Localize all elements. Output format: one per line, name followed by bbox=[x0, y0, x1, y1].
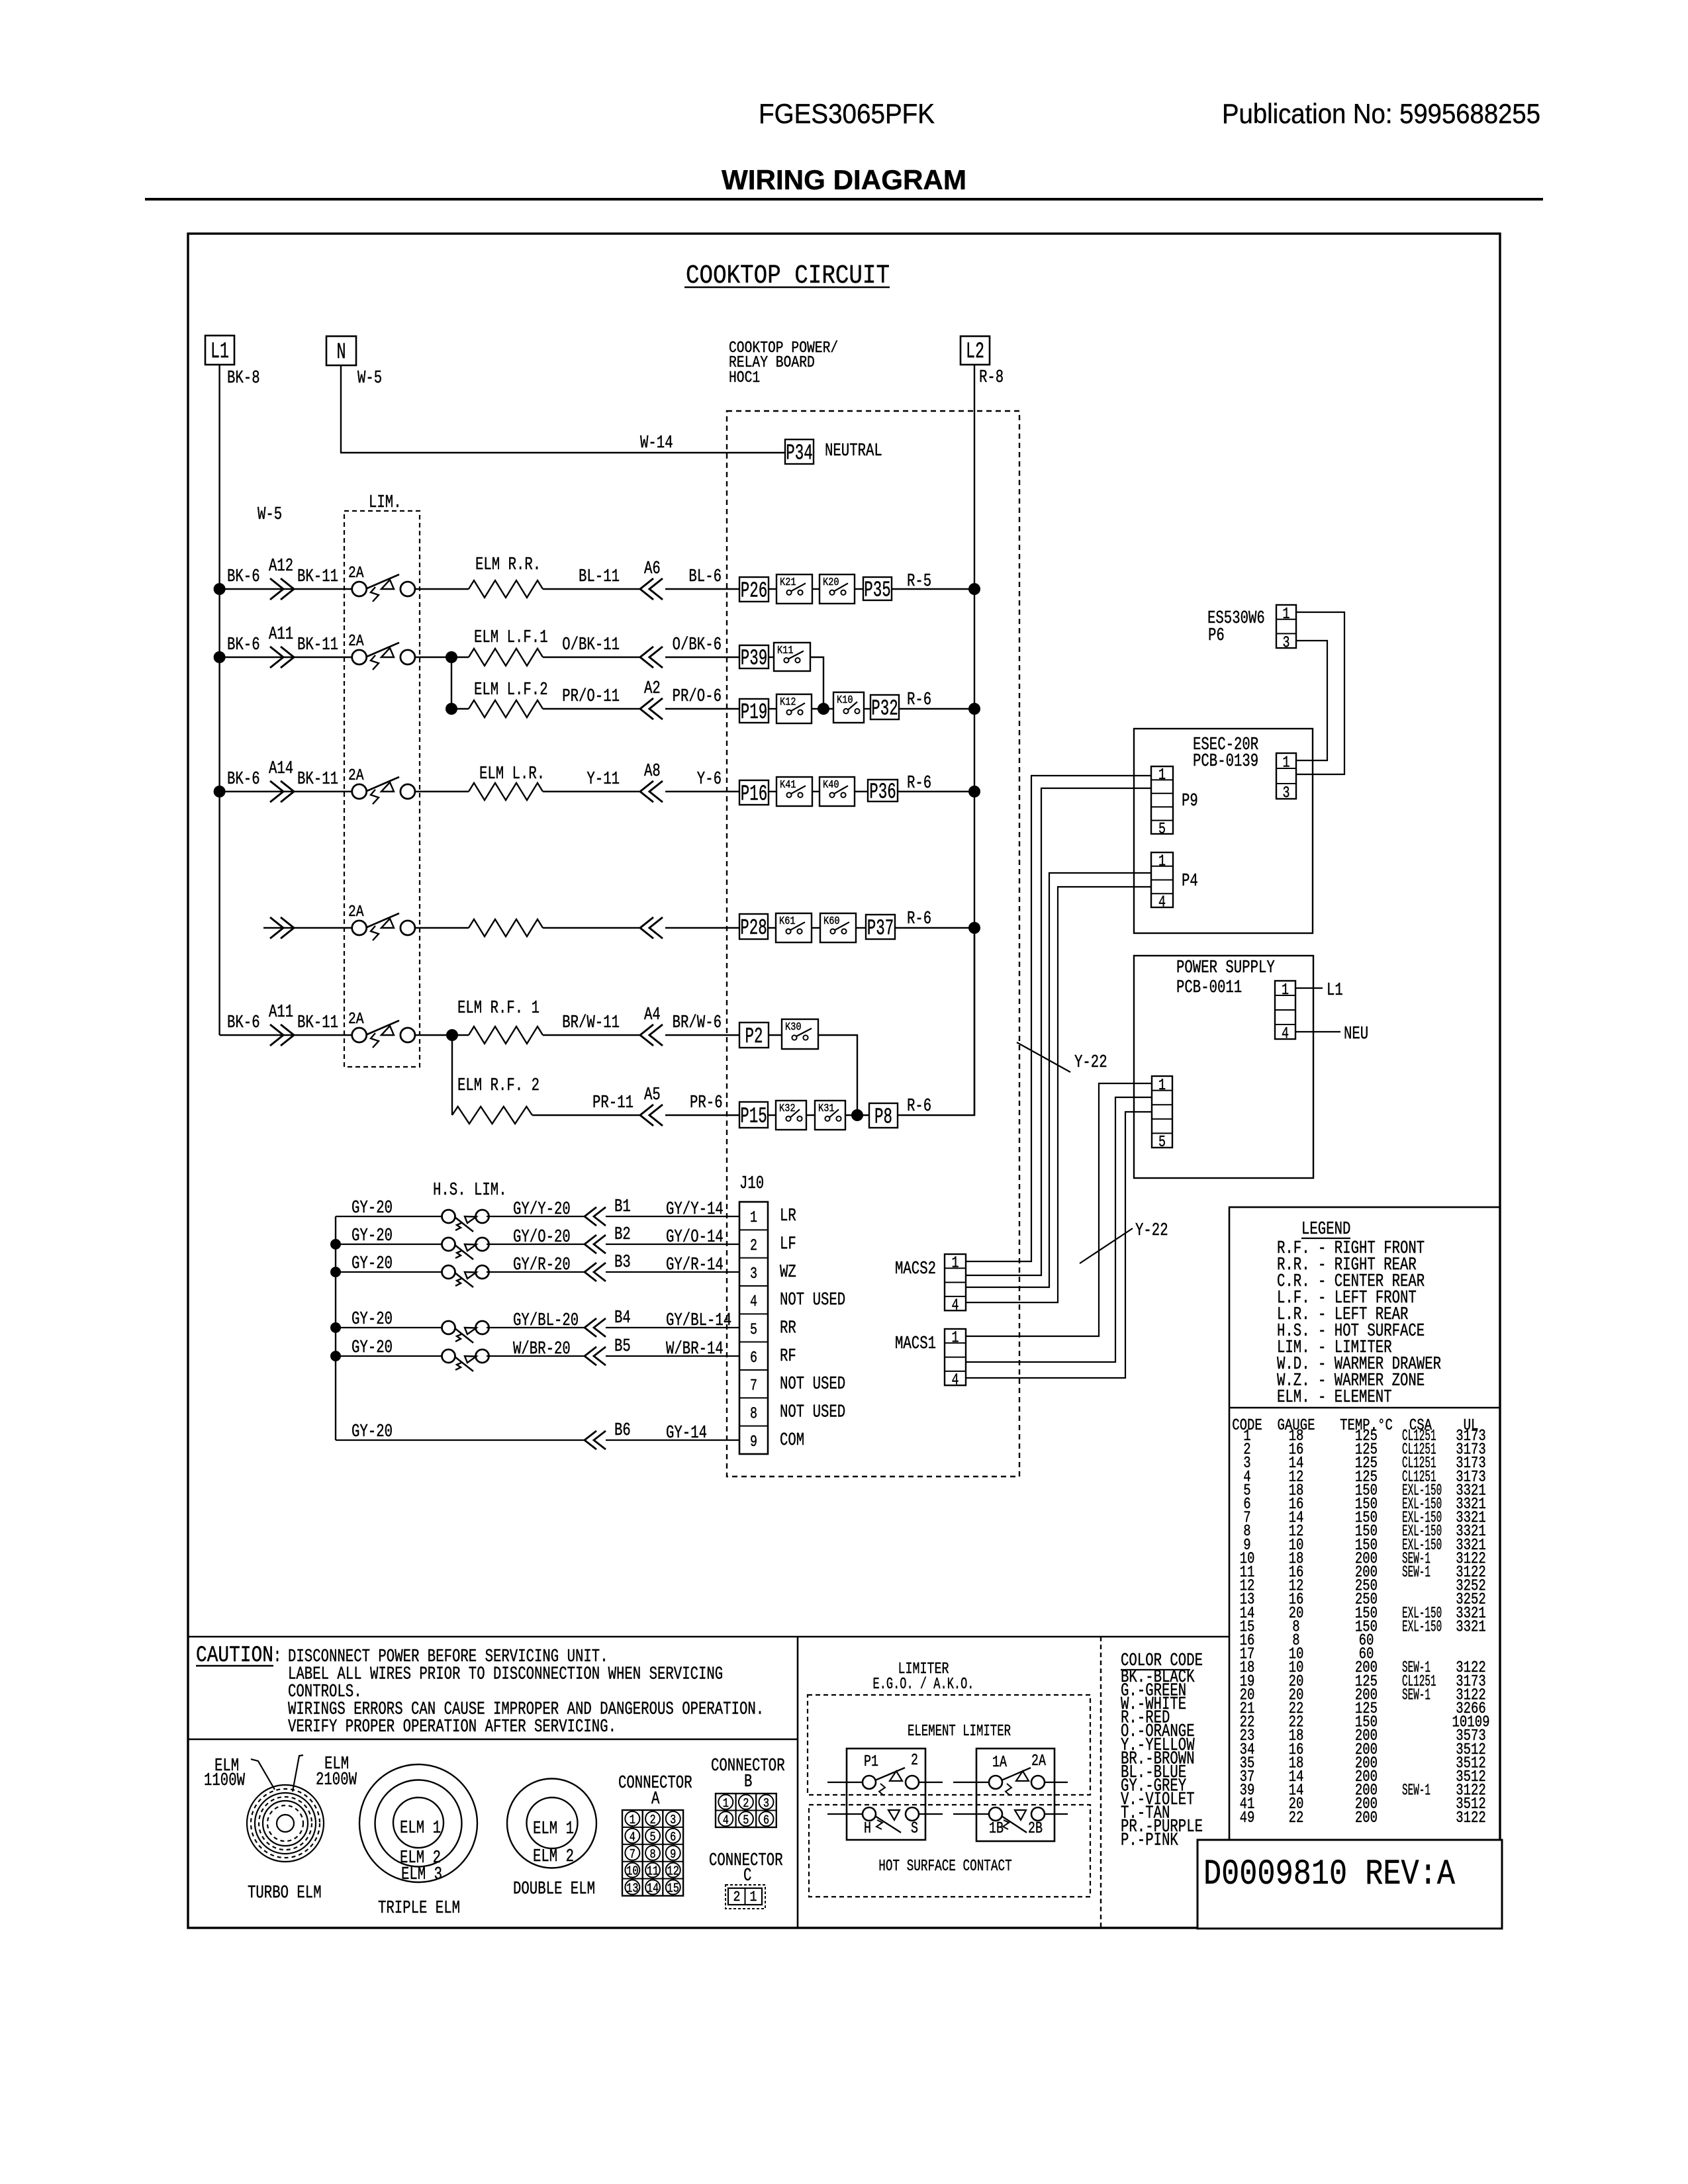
svg-text:9: 9 bbox=[750, 1433, 757, 1451]
svg-text:ELM 2: ELM 2 bbox=[533, 1847, 574, 1867]
svg-text:K12: K12 bbox=[780, 696, 796, 709]
svg-text:7: 7 bbox=[750, 1377, 757, 1395]
svg-text:NOT USED: NOT USED bbox=[780, 1375, 845, 1394]
wire resistor to splice bbox=[543, 927, 639, 929]
connector P2 bbox=[739, 1023, 769, 1048]
svg-text:1: 1 bbox=[952, 1255, 959, 1273]
terminal L2 bbox=[961, 336, 990, 365]
svg-text:BK-6: BK-6 bbox=[227, 1013, 260, 1033]
leader line ELM 2100W bbox=[293, 1755, 303, 1792]
svg-text:O/BK-11: O/BK-11 bbox=[562, 635, 620, 655]
connector C bbox=[726, 1885, 765, 1909]
svg-text:VERIFY PROPER OPERATION AFTER: VERIFY PROPER OPERATION AFTER SERVICING. bbox=[288, 1717, 616, 1737]
svg-text:P39: P39 bbox=[741, 647, 768, 671]
svg-text:4: 4 bbox=[952, 1372, 959, 1390]
splice arrow bbox=[270, 917, 283, 938]
connector P39 bbox=[739, 645, 769, 668]
svg-text:K20: K20 bbox=[823, 576, 839, 589]
svg-text:P8: P8 bbox=[874, 1105, 892, 1130]
svg-text:GY-20: GY-20 bbox=[352, 1310, 393, 1330]
svg-text:BK-11: BK-11 bbox=[297, 635, 338, 655]
wire P16 to K41 bbox=[769, 791, 776, 792]
wire GY-20 bus bbox=[335, 1216, 336, 1440]
wire from L1 bus to limiter bbox=[263, 927, 352, 929]
wire N to P34 neutral bbox=[341, 365, 785, 453]
limiter switch box P1/2/H/S bbox=[847, 1749, 925, 1840]
divider color code section dashed bbox=[1100, 1637, 1102, 1928]
hot surface contact dashed box bbox=[809, 1805, 1090, 1897]
svg-text:R-6: R-6 bbox=[907, 774, 931, 794]
limiter switch 2A bbox=[352, 1028, 367, 1042]
splice arrow left bbox=[594, 1235, 606, 1253]
svg-text:P15: P15 bbox=[740, 1105, 767, 1129]
svg-text:A11: A11 bbox=[269, 1003, 293, 1023]
svg-text:Y-6: Y-6 bbox=[697, 770, 722, 790]
wire P6 pin1 to ESEC pin2 bbox=[1296, 612, 1344, 774]
svg-text:B6: B6 bbox=[614, 1421, 631, 1441]
limiter switch 2A bbox=[352, 582, 367, 596]
svg-text:LF: LF bbox=[780, 1235, 796, 1255]
svg-text:BK-8: BK-8 bbox=[227, 369, 260, 388]
wire P26 to K21 bbox=[769, 588, 776, 590]
svg-text:BR/W-11: BR/W-11 bbox=[562, 1013, 620, 1033]
limiter switch box 1A/2A/1B/2B bbox=[976, 1749, 1055, 1841]
wire splice to relay board bbox=[665, 708, 739, 709]
wire RF junction down to row RF2 bbox=[451, 1035, 453, 1115]
svg-text:4: 4 bbox=[750, 1293, 757, 1311]
svg-text:BK-6: BK-6 bbox=[227, 567, 260, 587]
connector P28 bbox=[739, 914, 768, 939]
connector P35 bbox=[863, 577, 892, 600]
svg-text:B1: B1 bbox=[614, 1197, 631, 1217]
svg-text:4: 4 bbox=[723, 1813, 729, 1827]
svg-text:BK-6: BK-6 bbox=[227, 770, 260, 790]
relay K40 bbox=[820, 777, 855, 806]
wire K31 to P8 bbox=[845, 1115, 869, 1116]
svg-text:200: 200 bbox=[1355, 1809, 1378, 1827]
caution box bottom line bbox=[188, 1739, 798, 1741]
wire switch to resistor bbox=[414, 791, 469, 792]
connector P16 bbox=[739, 780, 769, 805]
svg-text:R-6: R-6 bbox=[907, 909, 931, 929]
svg-text:N: N bbox=[337, 340, 346, 365]
svg-text:3122: 3122 bbox=[1456, 1809, 1486, 1827]
svg-text:H.S. LIM.: H.S. LIM. bbox=[433, 1181, 507, 1201]
svg-text:TRIPLE ELM: TRIPLE ELM bbox=[378, 1899, 460, 1919]
svg-text:K60: K60 bbox=[823, 915, 840, 928]
junction node on GY-20 bus bbox=[330, 1351, 341, 1361]
svg-text:W-5: W-5 bbox=[258, 505, 282, 525]
svg-text:1: 1 bbox=[1158, 852, 1166, 870]
svg-text:9: 9 bbox=[670, 1847, 676, 1862]
svg-text:POWER SUPPLY: POWER SUPPLY bbox=[1176, 958, 1275, 978]
wire hot surface 1B left stub bbox=[953, 1813, 989, 1815]
splice arrow bbox=[270, 1024, 283, 1046]
svg-text:P9: P9 bbox=[1182, 792, 1198, 811]
svg-text:1: 1 bbox=[1158, 766, 1166, 784]
splice arrow left bbox=[649, 917, 663, 938]
svg-text:PR/O-11: PR/O-11 bbox=[562, 687, 620, 707]
svg-text:P4: P4 bbox=[1182, 872, 1198, 891]
wire splice to relay board bbox=[665, 791, 739, 792]
svg-text:2: 2 bbox=[743, 1796, 749, 1811]
wire bus to H.S. switch bbox=[336, 1216, 442, 1217]
svg-text:5: 5 bbox=[1158, 1134, 1166, 1152]
element resistor ELM R.F. 1 bbox=[469, 1026, 543, 1044]
svg-text:P1: P1 bbox=[864, 1753, 878, 1771]
connector P32 bbox=[870, 695, 899, 719]
svg-text:R-8: R-8 bbox=[979, 368, 1004, 388]
svg-text:FGES3065PFK: FGES3065PFK bbox=[759, 98, 935, 129]
svg-text:K41: K41 bbox=[780, 779, 796, 792]
svg-text:O/BK-6: O/BK-6 bbox=[673, 635, 722, 655]
limiter switch 2A bbox=[352, 784, 367, 799]
wire splice to relay board bbox=[665, 588, 739, 590]
svg-text:BK-11: BK-11 bbox=[297, 567, 338, 587]
wire hot surface row right stub bbox=[919, 1813, 943, 1815]
svg-text::: : bbox=[273, 1645, 281, 1668]
svg-text:ELM R.F. 2: ELM R.F. 2 bbox=[457, 1076, 539, 1096]
wire splice to J10 bbox=[606, 1439, 739, 1441]
svg-text:WIRINGS ERRORS CAN CAUSE IMPRO: WIRINGS ERRORS CAN CAUSE IMPROPER AND DA… bbox=[288, 1700, 764, 1720]
connector P19 bbox=[739, 699, 769, 723]
svg-text:EXL-150: EXL-150 bbox=[1402, 1618, 1442, 1636]
relay K41 bbox=[776, 777, 812, 806]
svg-text:RR: RR bbox=[780, 1319, 796, 1339]
svg-text:A8: A8 bbox=[644, 762, 661, 782]
svg-text:BK-6: BK-6 bbox=[227, 635, 260, 655]
wire L1 bus bbox=[218, 365, 220, 1035]
svg-text:3: 3 bbox=[1283, 785, 1290, 803]
svg-text:SEW-1: SEW-1 bbox=[1402, 1564, 1430, 1582]
svg-text:R-5: R-5 bbox=[907, 572, 931, 592]
svg-text:NOT USED: NOT USED bbox=[780, 1403, 845, 1423]
svg-text:1: 1 bbox=[750, 1209, 757, 1227]
wire resistor to splice bbox=[543, 708, 639, 709]
bottom section divider horizontal bbox=[188, 1636, 1229, 1638]
wire switch to resistor bbox=[414, 927, 469, 929]
wire switch to junction bbox=[414, 1034, 453, 1036]
svg-text:LIM.: LIM. bbox=[369, 493, 402, 513]
svg-text:5: 5 bbox=[750, 1322, 757, 1340]
element limiter dashed box bbox=[808, 1695, 1090, 1795]
svg-text:K32: K32 bbox=[779, 1103, 796, 1115]
svg-text:Y-22: Y-22 bbox=[1074, 1053, 1107, 1073]
svg-text:B3: B3 bbox=[614, 1253, 631, 1273]
element resistor ELM L.F.2 bbox=[469, 700, 543, 717]
svg-text:BL-6: BL-6 bbox=[688, 567, 722, 587]
svg-text:S: S bbox=[911, 1820, 918, 1838]
svg-text:BK-11: BK-11 bbox=[297, 1013, 338, 1033]
svg-text:1: 1 bbox=[750, 1889, 757, 1905]
svg-text:GY-20: GY-20 bbox=[352, 1422, 393, 1442]
leader line Y-22 lower bbox=[1080, 1228, 1133, 1263]
terminal N bbox=[326, 336, 356, 365]
wire P28 to K61 bbox=[768, 927, 776, 929]
wire splice to J10 bbox=[606, 1216, 739, 1217]
wire bus to H.S. switch bbox=[336, 1271, 442, 1273]
wire from L1 bus to limiter bbox=[220, 791, 352, 792]
connector power supply L1/NEU bbox=[1275, 981, 1295, 1039]
wire K30 down to P8 node bbox=[818, 1035, 857, 1115]
wire bus to H.S. switch bbox=[336, 1355, 442, 1357]
svg-text:WIRING DIAGRAM: WIRING DIAGRAM bbox=[722, 164, 966, 195]
svg-text:P6: P6 bbox=[1208, 626, 1225, 646]
svg-text:2A: 2A bbox=[348, 767, 364, 785]
svg-text:LEGEND: LEGEND bbox=[1301, 1220, 1350, 1240]
svg-text:P36: P36 bbox=[869, 780, 896, 805]
svg-text:GY-20: GY-20 bbox=[352, 1226, 393, 1246]
wire P39 to K11 bbox=[769, 657, 774, 658]
wire splice to relay board bbox=[665, 927, 739, 929]
wire to L1 terminal bbox=[1295, 987, 1323, 989]
svg-text:P28: P28 bbox=[740, 916, 767, 940]
connector P34 bbox=[785, 439, 814, 464]
limiter switch 2A bbox=[352, 921, 367, 935]
svg-text:GY-20: GY-20 bbox=[352, 1338, 393, 1358]
svg-text:3: 3 bbox=[750, 1265, 757, 1283]
svg-text:CONTROLS.: CONTROLS. bbox=[288, 1682, 362, 1702]
wire switch to splice bbox=[487, 1216, 585, 1217]
svg-text:K30: K30 bbox=[785, 1021, 802, 1034]
svg-text:C: C bbox=[743, 1866, 751, 1886]
wire switch to junction bbox=[414, 657, 452, 658]
svg-text:ELM L.F.2: ELM L.F.2 bbox=[474, 680, 548, 700]
wire switch to resistor bbox=[452, 1034, 469, 1036]
limiter switch 2A bbox=[352, 650, 367, 664]
svg-text:10: 10 bbox=[626, 1864, 638, 1879]
wire K11 to K10 via down bbox=[810, 657, 823, 709]
splice arrow left bbox=[649, 698, 663, 719]
wire resistor to splice bbox=[543, 791, 639, 792]
wire junction to row LF2 bbox=[451, 657, 452, 709]
svg-text:NEUTRAL: NEUTRAL bbox=[825, 441, 882, 461]
splice arrow bbox=[270, 647, 283, 668]
junction node on L2 bus row LR bbox=[968, 786, 980, 797]
wire element limiter 1A left stub bbox=[953, 1782, 989, 1783]
svg-text:R-6: R-6 bbox=[907, 1097, 931, 1116]
connector ESEC 1-3 bbox=[1276, 753, 1296, 799]
svg-text:1A: 1A bbox=[992, 1754, 1007, 1772]
legend box outline bbox=[1229, 1207, 1500, 1846]
junction node on GY-20 bus bbox=[330, 1322, 341, 1333]
svg-text:A6: A6 bbox=[644, 559, 661, 579]
svg-text:7: 7 bbox=[630, 1847, 635, 1862]
wire splice to J10 bbox=[606, 1271, 739, 1273]
svg-text:MACS2: MACS2 bbox=[895, 1259, 936, 1279]
svg-text:11: 11 bbox=[647, 1864, 659, 1879]
svg-text:J10: J10 bbox=[739, 1174, 764, 1194]
wire hot surface row left stub bbox=[827, 1813, 863, 1815]
svg-text:HOC1: HOC1 bbox=[729, 369, 760, 387]
svg-text:H: H bbox=[864, 1820, 871, 1838]
svg-text:ELM L.R.: ELM L.R. bbox=[479, 764, 545, 784]
svg-text:P32: P32 bbox=[871, 697, 898, 721]
drawing number box bbox=[1197, 1840, 1502, 1929]
svg-text:GY-20: GY-20 bbox=[352, 1254, 393, 1274]
wire to NEU terminal bbox=[1295, 1031, 1340, 1032]
relay K31 bbox=[815, 1101, 845, 1130]
wire K10 to P32 bbox=[864, 708, 870, 709]
svg-text:P19: P19 bbox=[741, 700, 768, 725]
svg-text:W-14: W-14 bbox=[640, 433, 673, 453]
svg-text:1: 1 bbox=[952, 1330, 959, 1347]
cooktop power relay board HOC1 dashed outline bbox=[727, 411, 1019, 1477]
svg-text:P2: P2 bbox=[745, 1024, 763, 1049]
svg-text:B5: B5 bbox=[614, 1337, 631, 1357]
svg-text:BK-11: BK-11 bbox=[297, 770, 338, 790]
wire splice to relay board bbox=[665, 1034, 739, 1036]
svg-text:2B: 2B bbox=[1028, 1820, 1043, 1838]
terminal L1 bbox=[205, 336, 234, 365]
svg-text:1: 1 bbox=[1283, 606, 1290, 623]
svg-text:ELM R.F. 1: ELM R.F. 1 bbox=[457, 999, 539, 1019]
wire switch to resistor bbox=[414, 588, 469, 590]
board POWER SUPPLY PCB-0011 outline bbox=[1134, 956, 1313, 1178]
outer border frame bbox=[188, 234, 1500, 1928]
splice arrow left bbox=[649, 1024, 663, 1046]
svg-text:PR-11: PR-11 bbox=[592, 1093, 633, 1113]
wire P36 to L2 bus bbox=[898, 791, 974, 792]
svg-text:14: 14 bbox=[647, 1882, 659, 1896]
svg-text:A14: A14 bbox=[269, 759, 293, 779]
relay K21 bbox=[776, 574, 812, 604]
svg-text:B: B bbox=[744, 1772, 752, 1792]
junction node K11/K12 bbox=[818, 703, 829, 715]
hot surface limiter switch bbox=[442, 1238, 455, 1251]
connector J10 bbox=[739, 1202, 768, 1454]
wire P19 to K12 bbox=[769, 708, 776, 709]
wire K60 to P37 bbox=[856, 927, 866, 929]
relay K20 bbox=[820, 574, 855, 604]
hot surface switch 1B-2B bbox=[989, 1807, 1002, 1821]
svg-text:22: 22 bbox=[1289, 1809, 1304, 1827]
svg-text:K31: K31 bbox=[818, 1103, 835, 1115]
wire element limiter row right stub bbox=[919, 1782, 943, 1783]
junction node on GY-20 bus bbox=[330, 1239, 341, 1250]
relay K61 bbox=[776, 913, 812, 942]
board ESEC-20R PCB-0139 outline bbox=[1134, 729, 1313, 933]
splice arrow left bbox=[649, 578, 663, 600]
svg-text:2: 2 bbox=[649, 1813, 655, 1827]
svg-text:ELM. - ELEMENT: ELM. - ELEMENT bbox=[1277, 1388, 1392, 1408]
svg-text:PR-6: PR-6 bbox=[690, 1093, 723, 1113]
wire bus to splice row COM bbox=[336, 1439, 585, 1441]
hot surface limiter switch bbox=[442, 1321, 455, 1334]
wire PS pin3 to MACS1 pin4 bbox=[966, 1112, 1152, 1378]
connector A pin grid bbox=[622, 1810, 683, 1896]
relay K60 bbox=[820, 913, 856, 942]
svg-text:2100W: 2100W bbox=[316, 1770, 357, 1790]
wire element limiter row left stub bbox=[827, 1782, 863, 1783]
wire PS pin1 to MACS1 pin1 bbox=[966, 1083, 1152, 1336]
turbo element coil rings bbox=[247, 1785, 324, 1862]
svg-text:P34: P34 bbox=[786, 441, 813, 466]
wire K32 to K31 bbox=[806, 1115, 815, 1116]
wire bus to H.S. switch bbox=[336, 1244, 442, 1245]
wire K12 to junction bbox=[812, 708, 833, 709]
svg-text:K40: K40 bbox=[823, 779, 839, 792]
svg-text:1100W: 1100W bbox=[204, 1771, 246, 1791]
svg-text:Y-11: Y-11 bbox=[586, 770, 620, 790]
svg-text:TURBO ELM: TURBO ELM bbox=[248, 1884, 322, 1903]
svg-text:P16: P16 bbox=[741, 782, 768, 807]
element resistor ELM R.R. bbox=[469, 580, 543, 598]
svg-text:4: 4 bbox=[952, 1297, 959, 1315]
wire P2 to K30 bbox=[769, 1034, 782, 1036]
connector P6 bbox=[1276, 605, 1296, 648]
svg-text:DISCONNECT POWER BEFORE SERVIC: DISCONNECT POWER BEFORE SERVICING UNIT. bbox=[288, 1647, 608, 1667]
leader line Y-22 upper bbox=[1017, 1042, 1070, 1072]
svg-text:ELM 3: ELM 3 bbox=[401, 1865, 442, 1885]
wire P8 to L2 bus bbox=[898, 928, 974, 1115]
svg-text:K10: K10 bbox=[837, 694, 853, 707]
svg-text:1: 1 bbox=[630, 1813, 635, 1827]
svg-text:3: 3 bbox=[1283, 634, 1290, 652]
svg-text:PR/O-6: PR/O-6 bbox=[673, 687, 722, 707]
junction node on L2 bus row 4 bbox=[968, 922, 980, 934]
svg-text:BR/W-6: BR/W-6 bbox=[673, 1013, 722, 1033]
wire switch to resistor bbox=[451, 657, 469, 658]
junction node on L1 bus row RR bbox=[214, 583, 226, 595]
svg-text:3321: 3321 bbox=[1456, 1618, 1486, 1636]
wire switch to splice bbox=[487, 1355, 585, 1357]
svg-text:W-5: W-5 bbox=[357, 369, 382, 388]
svg-text:4: 4 bbox=[630, 1830, 635, 1844]
svg-text:P.-PINK: P.-PINK bbox=[1121, 1831, 1178, 1851]
svg-text:SEW-1: SEW-1 bbox=[1402, 1686, 1430, 1704]
svg-text:LABEL ALL WIRES PRIOR TO DISCO: LABEL ALL WIRES PRIOR TO DISCONNECTION W… bbox=[288, 1665, 723, 1685]
svg-text:NEU: NEU bbox=[1344, 1024, 1368, 1044]
junction node K30/P8 bbox=[851, 1109, 863, 1121]
splice arrow left bbox=[649, 781, 663, 802]
svg-text:E.G.O. / A.K.O.: E.G.O. / A.K.O. bbox=[873, 1676, 974, 1694]
svg-text:2: 2 bbox=[911, 1752, 918, 1770]
svg-text:2A: 2A bbox=[348, 1011, 364, 1028]
wire switch to resistor bbox=[451, 708, 469, 709]
svg-text:15: 15 bbox=[667, 1882, 679, 1896]
svg-text:6: 6 bbox=[750, 1349, 757, 1367]
wire resistor to splice bbox=[543, 1034, 639, 1036]
connector P8 bbox=[869, 1103, 898, 1128]
splice arrow left bbox=[594, 1207, 606, 1226]
splice arrow bbox=[270, 578, 283, 600]
svg-text:2A: 2A bbox=[1031, 1752, 1046, 1770]
relay K30 bbox=[782, 1019, 818, 1049]
connector B pin grid bbox=[716, 1794, 776, 1827]
svg-text:ELM R.R.: ELM R.R. bbox=[475, 555, 541, 575]
svg-text:P35: P35 bbox=[864, 578, 891, 603]
wire splice to J10 bbox=[606, 1355, 739, 1357]
wire element limiter 1A right stub bbox=[1045, 1782, 1068, 1783]
wire K41 to K40 bbox=[812, 791, 820, 792]
hot surface limiter switch bbox=[442, 1210, 455, 1223]
svg-text:LR: LR bbox=[780, 1206, 796, 1226]
wire hot surface 1B right stub bbox=[1045, 1813, 1068, 1815]
connector power supply lower 1-5 bbox=[1152, 1076, 1172, 1148]
svg-text:4: 4 bbox=[1158, 894, 1166, 912]
element resistor ELM L.R. bbox=[469, 783, 543, 800]
svg-text:MACS1: MACS1 bbox=[895, 1334, 936, 1354]
element resistor ELM R.F.2 bbox=[452, 1107, 532, 1124]
svg-text:R-6: R-6 bbox=[907, 690, 931, 710]
junction node row LF2 feed bbox=[445, 703, 457, 715]
svg-text:D0009810 REV:A: D0009810 REV:A bbox=[1203, 1854, 1455, 1895]
svg-text:ELEMENT LIMITER: ELEMENT LIMITER bbox=[908, 1723, 1011, 1741]
connector P37 bbox=[866, 915, 895, 939]
wire switch to splice bbox=[487, 1244, 585, 1245]
svg-text:ELM 1: ELM 1 bbox=[533, 1819, 574, 1839]
